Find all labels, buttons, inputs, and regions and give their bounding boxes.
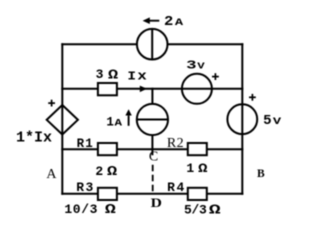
svg-text:R3: R3 <box>76 180 94 195</box>
svg-text:Ω: Ω <box>107 164 117 180</box>
label Ix <box>127 69 147 83</box>
svg-text:A: A <box>175 16 184 28</box>
svg-text:Ω: Ω <box>108 67 118 83</box>
svg-text:Ω: Ω <box>198 162 208 176</box>
wire right vertical <box>241 44 243 194</box>
svg-text:3: 3 <box>96 67 104 82</box>
svg-text:Ω: Ω <box>209 203 221 219</box>
label 5/3 ohm <box>184 202 221 218</box>
label 2A <box>164 15 184 30</box>
label 1A <box>106 116 122 130</box>
svg-text:D: D <box>151 196 162 210</box>
resistor 3ohm <box>98 83 117 95</box>
label 1 ohm <box>186 161 208 176</box>
svg-text:3: 3 <box>186 60 196 73</box>
label 5V <box>263 113 282 129</box>
label 10/3 ohm <box>64 202 116 217</box>
current source 2A <box>137 29 168 60</box>
wire row3 A-B <box>62 148 242 150</box>
resistor R4 <box>188 188 207 200</box>
svg-text:R4: R4 <box>167 180 186 195</box>
resistor R3 <box>98 188 117 200</box>
wire top <box>62 43 242 45</box>
svg-text:Ω: Ω <box>105 202 116 217</box>
polarity plus diamond <box>48 100 55 107</box>
polarity plus 3V <box>212 73 219 80</box>
wire middle vertical <box>151 89 153 155</box>
svg-text:10/3: 10/3 <box>64 202 98 217</box>
polarity plus 5V <box>249 94 256 101</box>
wire row2 <box>62 88 242 90</box>
svg-text:1: 1 <box>186 161 194 176</box>
voltage source 5V <box>227 104 257 134</box>
svg-text:C: C <box>149 150 158 165</box>
arrow 1A direction <box>125 109 131 126</box>
label 3 ohm <box>96 67 118 83</box>
wire left vertical <box>61 44 63 194</box>
label 3V <box>186 60 205 73</box>
wire row4 bottom <box>62 193 242 195</box>
svg-text:A: A <box>115 119 123 130</box>
label 2 ohm <box>95 164 117 180</box>
svg-text:R1: R1 <box>77 137 94 151</box>
voltage source 3V <box>182 74 212 104</box>
svg-text:5: 5 <box>263 113 271 129</box>
current source 1A <box>137 104 168 135</box>
svg-text:B: B <box>257 168 265 180</box>
svg-text:5/3: 5/3 <box>184 202 207 217</box>
svg-text:1*Ix: 1*Ix <box>16 130 52 147</box>
svg-text:1: 1 <box>106 116 114 130</box>
svg-text:R2: R2 <box>167 136 184 151</box>
wire dashed C-D <box>152 165 154 194</box>
dependent source diamond 1*Ix <box>47 105 78 135</box>
svg-text:A: A <box>46 167 57 182</box>
svg-text:2: 2 <box>95 164 103 179</box>
svg-text:2: 2 <box>164 15 173 30</box>
svg-text:V: V <box>273 115 282 127</box>
arrow Ix <box>140 86 147 93</box>
svg-text:x: x <box>137 70 147 84</box>
arrow 2A direction <box>143 17 160 24</box>
svg-text:V: V <box>197 62 205 72</box>
resistor R2 <box>188 143 207 155</box>
resistor R1 <box>98 143 117 155</box>
svg-text:I: I <box>127 69 136 83</box>
